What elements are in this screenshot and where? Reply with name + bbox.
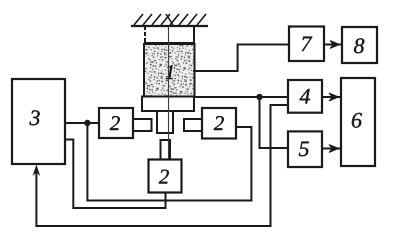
label 4: [300, 89, 310, 104]
wire junction to block 5: [260, 97, 289, 148]
right stub: [184, 119, 202, 131]
block 5: [288, 131, 322, 167]
block 7: [289, 27, 324, 62]
label 5: [299, 142, 309, 157]
block 2 right: [202, 108, 236, 139]
label 6: [352, 113, 362, 128]
arrow into block 3: [33, 165, 41, 177]
label 8: [354, 38, 364, 53]
junction dot: [256, 94, 262, 100]
junction dot: [84, 120, 90, 126]
center axis line: [168, 26, 170, 159]
left stub: [133, 119, 152, 131]
block 2 bottom: [149, 160, 182, 193]
label 2 bottom: [159, 170, 169, 184]
wire block 3 to left vibrator: [65, 122, 99, 124]
label 3: [30, 110, 40, 125]
upper grip frame: [144, 26, 195, 43]
block 8: [342, 27, 377, 63]
block 4: [288, 80, 322, 113]
hatch strokes: [134, 14, 206, 25]
wire junction loop to right vibrator: [87, 123, 251, 201]
block 2 left: [99, 108, 133, 138]
label 7: [302, 37, 313, 51]
block 6: [341, 78, 375, 166]
specimen 1: [144, 44, 195, 97]
wire grip to block 4: [194, 96, 288, 98]
connector to bottom vibrator: [161, 140, 171, 160]
label 1: [166, 65, 174, 79]
rod: [157, 111, 173, 133]
label 2 left: [110, 116, 120, 130]
wire block 4 feedback to block 3: [36, 105, 288, 226]
wire block 3 to bottom vibrator: [65, 140, 166, 209]
wire specimen to block 7: [193, 45, 289, 72]
lower grip: [142, 97, 194, 112]
block 3: [12, 79, 65, 164]
arrow 7 to 8: [324, 41, 341, 49]
arrow 5 to 6: [322, 145, 340, 153]
arrow 4 to 6: [322, 93, 340, 101]
ceiling hatch line: [131, 25, 208, 27]
label 2 right: [214, 116, 224, 130]
